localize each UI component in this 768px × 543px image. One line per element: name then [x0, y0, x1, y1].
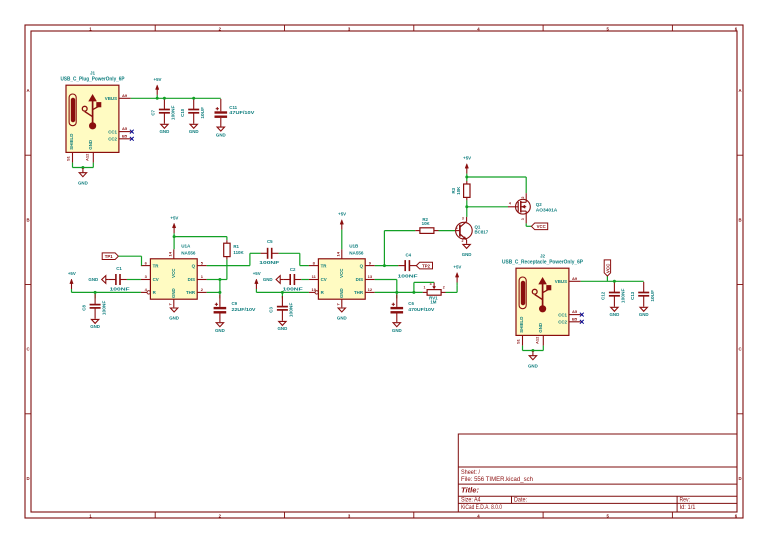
- svg-text:File: 556 TIMER.kicad_sch: File: 556 TIMER.kicad_sch: [461, 476, 534, 483]
- wire J1 shield/gnd to ground: [73, 163, 94, 168]
- wire U1B THR to RV1: [375, 291, 423, 293]
- svg-text:+5V: +5V: [170, 215, 178, 220]
- svg-text:100NF: 100NF: [283, 286, 303, 291]
- wire RV1 to +5V: [446, 286, 458, 293]
- wire R1 to DIS/THR: [207, 260, 227, 293]
- wire Q1 collector to R3: [466, 207, 468, 217]
- global label TP1: [102, 253, 118, 260]
- svg-text:VCC: VCC: [171, 268, 176, 278]
- wire R2 to Q1 base: [439, 230, 456, 232]
- svg-text:Id: 1/1: Id: 1/1: [680, 504, 697, 511]
- wire Q2 drain to VCC: [526, 223, 531, 226]
- svg-text:470UF/10V: 470UF/10V: [408, 307, 434, 312]
- svg-text:C10: C10: [180, 108, 185, 117]
- wire U1B VCC to +5V: [341, 233, 343, 249]
- svg-text:AO3401A: AO3401A: [536, 207, 558, 212]
- capacitor C7 100NF: [151, 99, 176, 124]
- svg-text:C: C: [26, 347, 29, 352]
- capacitor C2 100NF: [283, 267, 303, 291]
- ground below C8: [90, 319, 100, 329]
- svg-text:2: 2: [521, 196, 525, 198]
- connector J1 USB_C_Plug_PowerOnly_6P: [61, 71, 131, 163]
- svg-text:GND: GND: [88, 277, 98, 282]
- svg-text:USB_C_Receptacle_PowerOnly_6P: USB_C_Receptacle_PowerOnly_6P: [502, 260, 584, 266]
- ic U1A NA556 timer: [141, 244, 207, 308]
- junction DIS U1A: [218, 278, 221, 281]
- svg-text:+5V: +5V: [68, 271, 76, 276]
- svg-text:3: 3: [462, 217, 464, 221]
- svg-text:U1A: U1A: [181, 244, 191, 249]
- svg-text:Q2: Q2: [536, 202, 542, 207]
- svg-text:Size: A4: Size: A4: [461, 497, 481, 504]
- power +5V at J1: [154, 77, 162, 98]
- svg-text:J1: J1: [90, 71, 96, 76]
- svg-text:13: 13: [368, 274, 373, 279]
- svg-text:DIS: DIS: [188, 277, 195, 282]
- svg-text:110K: 110K: [233, 250, 244, 255]
- wire U1A Q to C5: [207, 253, 261, 265]
- svg-text:Rev:: Rev:: [680, 497, 691, 504]
- junction U1A VCC rail: [173, 235, 176, 238]
- svg-text:GND: GND: [538, 323, 543, 333]
- svg-text:VCC: VCC: [605, 263, 610, 273]
- svg-text:GND: GND: [278, 326, 288, 331]
- svg-text:THR: THR: [186, 290, 196, 295]
- svg-text:GND: GND: [160, 129, 170, 134]
- capacitor C1 100NF: [109, 266, 130, 292]
- svg-text:GND: GND: [610, 312, 620, 317]
- wire +5V rail to R3/Q2: [467, 177, 526, 193]
- svg-text:B: B: [26, 217, 29, 222]
- svg-text:BC817: BC817: [475, 230, 489, 235]
- wire U1B Q up to R2: [384, 231, 415, 266]
- svg-text:VBUS: VBUS: [555, 279, 567, 284]
- svg-text:GND: GND: [78, 180, 88, 185]
- junction Q/U1B: [383, 264, 386, 267]
- wire VBUS J2 rail: [581, 280, 644, 282]
- svg-text:Title:: Title:: [461, 486, 480, 495]
- svg-text:A12: A12: [535, 336, 540, 344]
- junction J1 ground: [81, 166, 84, 169]
- svg-text:TR: TR: [153, 263, 160, 268]
- svg-text:R1: R1: [233, 244, 239, 249]
- resistor R2 10K: [415, 217, 438, 234]
- svg-text:GND: GND: [392, 328, 402, 333]
- svg-text:CC2: CC2: [558, 320, 567, 325]
- svg-text:100NF: 100NF: [621, 288, 626, 303]
- svg-text:12: 12: [368, 287, 373, 292]
- ground below U1A: [169, 308, 179, 320]
- svg-text:100NF: 100NF: [289, 302, 294, 317]
- svg-text:4: 4: [509, 202, 511, 206]
- ground below C13: [639, 307, 649, 317]
- wire U1A VCC to +5V rail: [174, 237, 227, 250]
- svg-text:CC2: CC2: [108, 137, 117, 142]
- svg-text:C: C: [738, 347, 741, 352]
- svg-text:S1: S1: [65, 155, 70, 161]
- capacitor C11 47UF/10V: [215, 99, 255, 127]
- wire U1B Q output: [375, 265, 399, 267]
- svg-text:SHIELD: SHIELD: [519, 317, 524, 333]
- junction C3: [281, 291, 284, 294]
- svg-text:GND: GND: [528, 363, 538, 368]
- no-connect CC1 (J2): [580, 313, 584, 317]
- title block: [458, 434, 737, 512]
- ground below Q1: [462, 244, 472, 256]
- wire U1B DIS to C6: [375, 280, 397, 293]
- svg-text:A5: A5: [572, 309, 578, 314]
- wire C2 to U1B CV: [301, 279, 309, 281]
- svg-text:100NF: 100NF: [398, 273, 418, 278]
- capacitor C10 10UF: [180, 99, 205, 124]
- svg-text:+5V: +5V: [253, 271, 261, 276]
- svg-text:47UF/10V: 47UF/10V: [229, 110, 254, 115]
- power +5V left of U1B: [253, 271, 261, 292]
- ground below C10: [189, 124, 199, 134]
- svg-text:GND: GND: [339, 288, 344, 298]
- svg-text:+5V: +5V: [154, 77, 162, 82]
- svg-text:+5V: +5V: [463, 156, 471, 161]
- global label VCC at J2: [604, 260, 610, 281]
- svg-text:100NF: 100NF: [259, 260, 279, 265]
- ground below J1: [78, 168, 88, 185]
- svg-text:1: 1: [456, 226, 458, 230]
- no-connect CC2 (J2): [580, 320, 584, 324]
- svg-text:Q: Q: [360, 263, 364, 268]
- svg-text:C12: C12: [601, 291, 606, 300]
- ground left of C1: [88, 276, 108, 284]
- svg-text:22UF/10V: 22UF/10V: [232, 307, 256, 312]
- svg-text:100NF: 100NF: [110, 287, 130, 292]
- potentiometer RV1 1M: [423, 282, 446, 304]
- transistor Q1 BC817: [455, 217, 489, 244]
- svg-text:C1: C1: [116, 266, 122, 271]
- power +5V left of U1A: [68, 271, 76, 292]
- junction J2 ground: [531, 349, 534, 352]
- capacitor C3 100NF: [269, 292, 294, 320]
- svg-text:TP1: TP1: [105, 254, 113, 259]
- svg-text:A12: A12: [85, 153, 90, 161]
- ground below C11: [216, 127, 226, 137]
- svg-text:+5V: +5V: [338, 212, 346, 217]
- svg-text:D: D: [738, 476, 741, 481]
- svg-text:GND: GND: [90, 324, 100, 329]
- resistor R1 110K: [224, 240, 245, 259]
- svg-text:GND: GND: [189, 129, 199, 134]
- resistor R3 10K: [451, 181, 470, 200]
- svg-text:A5: A5: [122, 126, 128, 131]
- junction R3 top: [465, 176, 468, 179]
- capacitor C9 22UF/10V: [214, 292, 256, 322]
- junction C12: [613, 280, 616, 283]
- wire J2 shield/gnd to ground: [523, 346, 544, 351]
- capacitor C4 100NF: [398, 252, 418, 278]
- svg-text:CV: CV: [153, 277, 159, 282]
- ic U1B NA556 timer: [309, 244, 375, 308]
- svg-text:A: A: [26, 88, 29, 93]
- svg-text:C3: C3: [269, 307, 274, 313]
- wire +5V to U1B R pin: [256, 291, 309, 293]
- svg-text:C2: C2: [290, 267, 296, 272]
- junction C10: [192, 97, 195, 100]
- power +5V above U1B: [338, 212, 346, 233]
- capacitor C8 100NF: [81, 292, 106, 318]
- svg-text:10: 10: [311, 287, 316, 292]
- svg-text:TP2: TP2: [422, 263, 430, 268]
- svg-text:GND: GND: [215, 328, 225, 333]
- svg-text:14: 14: [336, 251, 341, 256]
- global label VCC at Q2: [531, 223, 547, 230]
- svg-text:B5: B5: [572, 316, 578, 321]
- svg-text:C6: C6: [408, 301, 414, 306]
- ground below C6: [392, 323, 402, 333]
- svg-text:10K: 10K: [422, 221, 431, 226]
- svg-text:VCC: VCC: [339, 268, 344, 278]
- no-connect CC2 (J1): [130, 137, 134, 141]
- capacitor C13 10UF: [630, 282, 655, 307]
- svg-text:C13: C13: [630, 291, 635, 300]
- svg-text:14: 14: [168, 251, 173, 256]
- ground below C9: [215, 323, 225, 333]
- junction RV1 wiper: [412, 291, 415, 294]
- svg-text:C5: C5: [267, 239, 273, 244]
- ground below C7: [160, 124, 170, 134]
- svg-text:GND: GND: [462, 252, 472, 257]
- svg-text:CC1: CC1: [558, 312, 567, 317]
- svg-text:GND: GND: [639, 312, 649, 317]
- svg-text:B: B: [738, 217, 741, 222]
- svg-text:2: 2: [443, 286, 445, 290]
- junction C6/THR: [395, 291, 398, 294]
- wire C1 to CV: [127, 279, 141, 281]
- svg-text:Q: Q: [192, 263, 196, 268]
- ground below C12: [610, 307, 620, 317]
- svg-text:Date:: Date:: [514, 497, 527, 504]
- svg-text:2: 2: [462, 239, 464, 243]
- svg-text:DIS: DIS: [356, 277, 363, 282]
- ground below C3: [278, 321, 288, 331]
- svg-text:S1: S1: [515, 338, 520, 344]
- svg-text:KiCad E.D.A. 8.0.0: KiCad E.D.A. 8.0.0: [461, 504, 502, 511]
- junction C8: [94, 291, 97, 294]
- wire C5 to U1B TR: [279, 253, 309, 265]
- svg-text:3: 3: [521, 218, 525, 220]
- svg-text:J2: J2: [540, 254, 546, 259]
- junction +5V/VBUS: [156, 97, 159, 100]
- svg-text:1M: 1M: [430, 300, 436, 305]
- svg-text:VCC: VCC: [537, 224, 546, 229]
- svg-text:VBUS: VBUS: [105, 96, 117, 101]
- svg-text:GND: GND: [88, 140, 93, 150]
- svg-text:CC1: CC1: [108, 129, 117, 134]
- svg-text:100NF: 100NF: [101, 300, 106, 315]
- svg-text:SHIELD: SHIELD: [69, 134, 74, 150]
- svg-text:10UF: 10UF: [650, 290, 655, 302]
- svg-text:THR: THR: [354, 290, 364, 295]
- capacitor C12 100NF: [601, 282, 626, 307]
- power +5V right of RV1: [453, 265, 461, 286]
- ground below J2: [528, 351, 538, 368]
- svg-text:GND: GND: [169, 315, 179, 320]
- svg-text:U1B: U1B: [349, 244, 359, 249]
- svg-text:C9: C9: [232, 301, 238, 306]
- svg-text:100NF: 100NF: [171, 105, 176, 120]
- transistor Q2 AO3401A: [508, 193, 558, 223]
- capacitor C5 100NF: [259, 239, 279, 265]
- svg-text:10UF: 10UF: [200, 107, 205, 119]
- svg-text:GND: GND: [216, 132, 226, 137]
- capacitor C6 470UF/10V: [391, 292, 435, 322]
- svg-text:C8: C8: [81, 305, 86, 311]
- svg-text:B5: B5: [122, 133, 128, 138]
- svg-text:GND: GND: [171, 288, 176, 298]
- no-connect CC1 (J1): [130, 130, 134, 134]
- power +5V above R3: [463, 156, 471, 177]
- ground below U1B: [337, 308, 347, 320]
- svg-text:NA556: NA556: [349, 250, 364, 255]
- svg-text:NA556: NA556: [181, 250, 196, 255]
- global label TP2: [416, 262, 432, 269]
- wire R3 to Q2 gate: [467, 200, 508, 207]
- ground left of C2: [263, 276, 283, 284]
- wire TP1 to U1A TR: [118, 256, 141, 265]
- svg-text:USB_C_Plug_PowerOnly_6P: USB_C_Plug_PowerOnly_6P: [61, 77, 126, 83]
- svg-text:D: D: [26, 476, 29, 481]
- svg-text:A9: A9: [122, 93, 128, 98]
- svg-text:CV: CV: [321, 277, 327, 282]
- svg-text:TR: TR: [321, 263, 328, 268]
- svg-text:GND: GND: [263, 277, 273, 282]
- junction Q2 gate: [465, 205, 468, 208]
- svg-text:GND: GND: [337, 315, 347, 320]
- svg-text:C7: C7: [151, 109, 156, 115]
- svg-text:A: A: [738, 88, 741, 93]
- svg-text:1: 1: [424, 286, 426, 290]
- svg-text:Sheet: /: Sheet: /: [461, 469, 480, 476]
- junction C7: [163, 97, 166, 100]
- svg-text:C4: C4: [405, 252, 411, 257]
- power +5V above U1A: [170, 215, 178, 236]
- wire VBUS J1 rail: [131, 97, 221, 99]
- connector J2 USB_C_Receptacle_PowerOnly_6P: [502, 254, 584, 346]
- junction THR U1A: [218, 291, 221, 294]
- wire +5V to U1A R pin: [72, 291, 141, 293]
- svg-text:+5V: +5V: [453, 265, 461, 270]
- svg-text:A9: A9: [572, 276, 578, 281]
- svg-text:10K: 10K: [456, 186, 461, 195]
- wire RV1 wiper loop: [414, 282, 434, 292]
